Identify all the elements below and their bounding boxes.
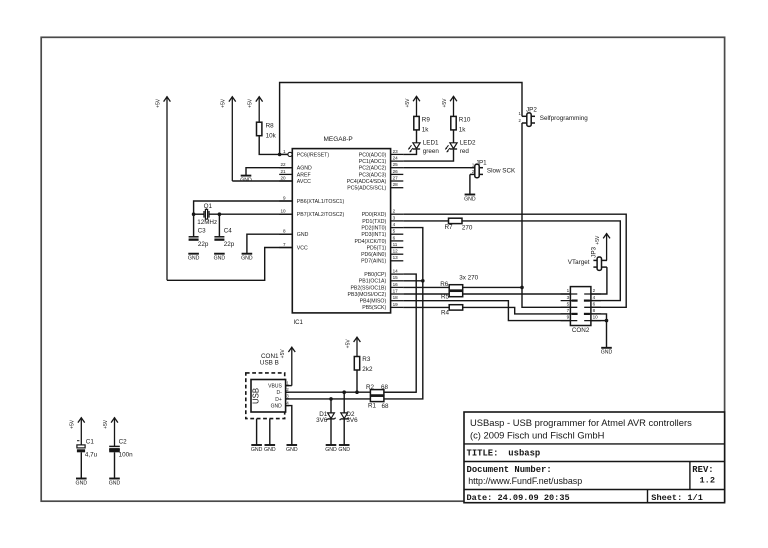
svg-text:R4: R4 <box>441 310 450 317</box>
svg-text:18: 18 <box>393 295 399 300</box>
svg-text:9: 9 <box>283 195 286 200</box>
svg-text:GND: GND <box>251 447 263 453</box>
svg-text:C3: C3 <box>198 227 207 234</box>
svg-text:+5V: +5V <box>595 235 601 245</box>
svg-text:JP2: JP2 <box>526 107 537 114</box>
svg-text:VBUS: VBUS <box>268 384 282 390</box>
svg-text:VCC: VCC <box>297 245 308 251</box>
svg-text:JP1: JP1 <box>476 159 487 166</box>
svg-text:PB1(OC1A): PB1(OC1A) <box>359 279 387 285</box>
svg-text:PD6(AIN0): PD6(AIN0) <box>361 252 386 258</box>
svg-text:PC1(ADC1): PC1(ADC1) <box>359 159 387 165</box>
svg-text:GND: GND <box>286 447 298 453</box>
svg-text:4,7u: 4,7u <box>85 451 98 458</box>
svg-text:R7: R7 <box>445 224 454 231</box>
svg-text:22: 22 <box>280 162 286 167</box>
svg-text:PB5(SCK): PB5(SCK) <box>362 305 386 311</box>
svg-text:GND: GND <box>214 256 226 262</box>
svg-text:6: 6 <box>393 235 396 240</box>
svg-text:PB2(SS/OC1B): PB2(SS/OC1B) <box>350 285 386 291</box>
svg-text:GND: GND <box>297 232 309 238</box>
svg-text:R5: R5 <box>441 293 450 300</box>
svg-text:AGND: AGND <box>297 166 312 172</box>
svg-text:PB3(MOSI/OC2): PB3(MOSI/OC2) <box>348 292 387 298</box>
svg-text:R8: R8 <box>266 123 275 130</box>
svg-text:2k2: 2k2 <box>362 366 373 373</box>
svg-text:GND: GND <box>188 256 200 262</box>
svg-text:68: 68 <box>382 403 390 410</box>
svg-text:Document Number:: Document Number: <box>467 465 552 475</box>
svg-text:(c) 2009 Fisch und Fischl GmbH: (c) 2009 Fisch und Fischl GmbH <box>470 430 604 441</box>
svg-text:REV:: REV: <box>692 465 713 475</box>
svg-text:5: 5 <box>393 229 396 234</box>
svg-text:PC0(ADC0): PC0(ADC0) <box>359 152 387 158</box>
svg-text:GND: GND <box>464 196 476 202</box>
svg-text:4: 4 <box>593 295 596 300</box>
svg-text:GND: GND <box>325 447 337 453</box>
svg-text:R9: R9 <box>422 117 431 124</box>
svg-text:GND: GND <box>271 403 283 409</box>
svg-text:GND: GND <box>241 256 253 262</box>
svg-text:10k: 10k <box>266 133 277 140</box>
svg-text:1k: 1k <box>422 127 430 134</box>
svg-text:10: 10 <box>593 315 599 320</box>
svg-text:GND: GND <box>601 350 613 356</box>
svg-text:27: 27 <box>393 175 399 180</box>
svg-text:LED1: LED1 <box>423 140 439 147</box>
svg-text:VTarget: VTarget <box>568 259 590 266</box>
svg-text:PD5(T1): PD5(T1) <box>367 245 387 251</box>
svg-text:PD7(AIN1): PD7(AIN1) <box>361 259 386 265</box>
svg-text:1: 1 <box>283 149 286 154</box>
svg-text:USB: USB <box>252 388 261 404</box>
svg-text:22p: 22p <box>224 241 235 248</box>
svg-text:R1: R1 <box>368 402 377 409</box>
svg-text:Sheet: 1/1: Sheet: 1/1 <box>651 493 703 503</box>
svg-text:12: 12 <box>393 249 399 254</box>
svg-text:19: 19 <box>393 302 399 307</box>
svg-text:7: 7 <box>567 308 570 313</box>
svg-text:MEGA8-P: MEGA8-P <box>324 136 353 143</box>
svg-text:+5V: +5V <box>405 98 411 108</box>
svg-text:GND: GND <box>264 447 276 453</box>
svg-text:1: 1 <box>567 288 570 293</box>
svg-text:9: 9 <box>567 315 570 320</box>
svg-text:1.2: 1.2 <box>700 475 715 485</box>
svg-text:4: 4 <box>393 222 396 227</box>
svg-text:11: 11 <box>393 242 398 247</box>
svg-text:26: 26 <box>393 169 399 174</box>
svg-text:15: 15 <box>393 275 399 280</box>
svg-text:PD4(XCK/T0): PD4(XCK/T0) <box>354 239 386 245</box>
svg-text:Q1: Q1 <box>204 203 213 210</box>
svg-text:PB6(XTAL1/TOSC1): PB6(XTAL1/TOSC1) <box>297 199 345 205</box>
svg-text:Date: 24.09.09 20:35: Date: 24.09.09 20:35 <box>467 493 570 503</box>
svg-text:LED2: LED2 <box>460 140 476 147</box>
svg-text:GND: GND <box>76 480 88 486</box>
svg-text:3V6: 3V6 <box>346 417 358 424</box>
svg-text:Slow SCK: Slow SCK <box>487 168 516 175</box>
svg-text:13: 13 <box>393 255 399 260</box>
svg-text:red: red <box>460 148 470 155</box>
svg-text:PC3(ADC3): PC3(ADC3) <box>359 172 387 178</box>
svg-text:21: 21 <box>280 169 286 174</box>
svg-text:+5V: +5V <box>442 98 448 108</box>
svg-text:+5V: +5V <box>70 419 76 429</box>
svg-text:R10: R10 <box>459 117 471 124</box>
svg-text:6: 6 <box>593 301 596 306</box>
svg-text:PC2(ADC2): PC2(ADC2) <box>359 166 387 172</box>
svg-text:USBasp - USB programmer for At: USBasp - USB programmer for Atmel AVR co… <box>470 417 692 428</box>
svg-text:25: 25 <box>393 162 399 167</box>
svg-text:PD1(TXD): PD1(TXD) <box>362 219 386 225</box>
svg-text:IC1: IC1 <box>294 320 304 326</box>
svg-text:CON2: CON2 <box>572 327 590 334</box>
svg-text:3x 270: 3x 270 <box>459 275 478 282</box>
svg-text:usbasp: usbasp <box>508 448 540 458</box>
svg-text:R6: R6 <box>440 281 449 288</box>
svg-text:+5V: +5V <box>345 339 351 349</box>
svg-text:3: 3 <box>393 215 396 220</box>
svg-text:100n: 100n <box>119 451 134 458</box>
svg-text:10: 10 <box>280 209 286 214</box>
svg-text:17: 17 <box>393 288 399 293</box>
svg-text:24: 24 <box>393 156 399 161</box>
svg-text:USB B: USB B <box>260 360 279 367</box>
svg-text:GND: GND <box>240 177 252 183</box>
svg-text:23: 23 <box>393 149 399 154</box>
svg-text:PC6(/RESET): PC6(/RESET) <box>297 152 330 158</box>
svg-text:68: 68 <box>381 384 389 391</box>
svg-text:1k: 1k <box>459 127 467 134</box>
svg-text:Selfprogramming: Selfprogramming <box>540 115 588 122</box>
svg-text:http://www.FundF.net/usbasp: http://www.FundF.net/usbasp <box>468 476 582 486</box>
svg-text:2: 2 <box>393 209 396 214</box>
svg-text:D+: D+ <box>275 397 282 403</box>
svg-text:PB7(XTAL2/TOSC2): PB7(XTAL2/TOSC2) <box>297 212 345 218</box>
svg-text:GND: GND <box>338 447 350 453</box>
svg-text:28: 28 <box>393 182 399 187</box>
svg-text:PD2(INT0): PD2(INT0) <box>361 226 386 232</box>
svg-text:PC5(ADC5/SCL): PC5(ADC5/SCL) <box>347 186 386 192</box>
svg-text:R2: R2 <box>366 384 375 391</box>
svg-text:22p: 22p <box>198 241 209 248</box>
svg-text:+5V: +5V <box>280 349 286 359</box>
svg-text:PC4(ADC4/SDA): PC4(ADC4/SDA) <box>347 179 387 185</box>
svg-text:8: 8 <box>593 308 596 313</box>
svg-text:D-: D- <box>277 390 283 396</box>
svg-text:+5V: +5V <box>248 98 254 108</box>
svg-text:270: 270 <box>462 225 473 232</box>
svg-text:2: 2 <box>593 288 596 293</box>
svg-text:+5V: +5V <box>155 98 161 108</box>
svg-text:14: 14 <box>393 269 399 274</box>
svg-text:PD3(INT1): PD3(INT1) <box>361 232 386 238</box>
svg-text:TITLE:: TITLE: <box>467 448 499 458</box>
svg-text:PD0(RXD): PD0(RXD) <box>362 212 387 218</box>
svg-text:C4: C4 <box>224 227 233 234</box>
svg-text:20: 20 <box>280 175 286 180</box>
svg-text:green: green <box>423 148 440 155</box>
svg-text:PB4(MISO): PB4(MISO) <box>360 299 387 305</box>
svg-text:AREF: AREF <box>297 172 311 178</box>
svg-text:AVCC: AVCC <box>297 179 311 185</box>
svg-text:16: 16 <box>393 282 399 287</box>
svg-text:C1: C1 <box>86 439 95 446</box>
svg-text:5: 5 <box>567 301 570 306</box>
svg-text:8: 8 <box>283 229 286 234</box>
svg-text:+5V: +5V <box>221 98 227 108</box>
svg-text:3: 3 <box>567 295 570 300</box>
svg-text:12MHz: 12MHz <box>197 219 217 226</box>
svg-text:C2: C2 <box>119 439 128 446</box>
svg-text:PB0(ICP): PB0(ICP) <box>364 272 386 278</box>
svg-text:R3: R3 <box>362 356 371 363</box>
svg-text:+5V: +5V <box>103 419 109 429</box>
svg-text:7: 7 <box>283 242 286 247</box>
svg-text:3V6: 3V6 <box>316 417 328 424</box>
svg-text:GND: GND <box>109 480 121 486</box>
svg-text:JP3: JP3 <box>590 246 597 257</box>
